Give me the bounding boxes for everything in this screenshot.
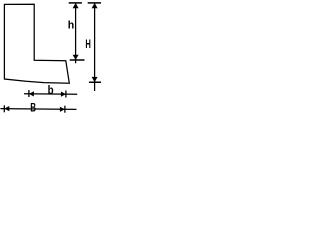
B dimension shaft xyxy=(0,108,76,111)
L-shape outline xyxy=(4,4,69,83)
svg-text:b: b xyxy=(48,84,54,97)
b right tick xyxy=(65,91,67,98)
B right arrow xyxy=(60,107,65,112)
svg-text:H: H xyxy=(85,38,90,51)
B right tick xyxy=(64,106,66,113)
h bottom tick xyxy=(70,59,85,61)
b left arrow xyxy=(29,91,34,96)
svg-text:h: h xyxy=(68,19,75,31)
h arrow up xyxy=(73,3,79,8)
svg-text:B: B xyxy=(30,102,36,115)
H bottom tick xyxy=(89,81,101,83)
B left arrow xyxy=(4,106,9,111)
H dimension top tick xyxy=(88,2,101,4)
H arrow down xyxy=(92,77,98,82)
H arrow up xyxy=(92,3,98,8)
h arrow down xyxy=(73,55,79,60)
H dimension shaft xyxy=(94,3,96,91)
b left tick xyxy=(28,90,30,97)
h dimension top tick xyxy=(69,2,82,4)
b right arrow xyxy=(61,92,66,97)
b dimension shaft xyxy=(24,93,77,95)
h dimension shaft xyxy=(75,3,77,63)
L-section dimension figure xyxy=(0,0,101,122)
B left tick xyxy=(3,105,5,112)
